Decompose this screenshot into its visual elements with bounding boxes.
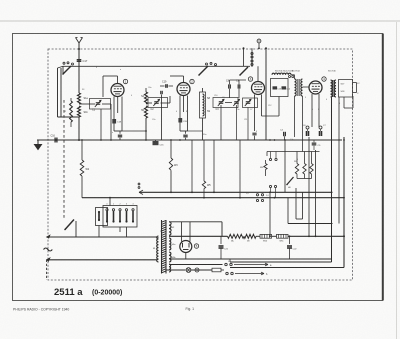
resistor W1 <box>153 141 159 145</box>
wire loop bottom2 <box>230 261 332 263</box>
wire speaker drop <box>338 97 340 224</box>
wire tube2 pins <box>179 96 181 119</box>
terminal pair gramophone <box>269 158 271 160</box>
wire C1 to bus <box>110 104 112 140</box>
wire output return vertical <box>331 97 333 262</box>
resistor chain W9 <box>244 234 256 238</box>
wire speaker return <box>343 97 345 108</box>
antenna <box>78 43 80 62</box>
mains wire upper <box>47 236 157 238</box>
capacitor C6a <box>183 134 187 136</box>
capacitor C8 <box>228 84 230 88</box>
variable capacitor C1 <box>79 103 95 105</box>
coil frame input <box>57 68 59 117</box>
dial lamp <box>257 39 261 43</box>
tube B4 <box>309 81 322 94</box>
choke W10 boxed <box>260 234 272 238</box>
coil S1a <box>78 93 81 104</box>
resistor W7c <box>310 164 313 175</box>
trimmer capacitor C3a <box>234 101 239 103</box>
band switch SK3 <box>240 67 248 75</box>
wire tap divider <box>269 192 271 236</box>
rail HT1 <box>139 191 333 193</box>
transformer core <box>161 220 163 274</box>
selector plug 3 <box>119 209 121 211</box>
wire coil to ground bus <box>78 117 80 140</box>
wire under osc block <box>278 97 280 117</box>
dashed stub bottom left <box>46 260 48 280</box>
wire antenna to coil <box>78 62 80 93</box>
capacitor stage2 stub <box>160 91 162 94</box>
outer border frame <box>13 34 383 301</box>
wire tube2 grid cap <box>183 76 185 83</box>
selector plug 2 <box>112 209 114 211</box>
ground bus wire <box>37 139 342 141</box>
coil S1b <box>78 106 81 117</box>
band switch SK1 <box>63 62 65 64</box>
electrolytic C7 <box>319 131 321 136</box>
tube B2 number <box>190 79 194 83</box>
resistor W2 <box>81 140 83 160</box>
wire loop C <box>287 198 289 224</box>
resistor W7b <box>303 164 306 175</box>
capacitor C2a <box>118 134 122 136</box>
wire loop A <box>284 140 286 192</box>
wire tube3 grid up <box>257 66 259 81</box>
capacitor C16 <box>54 138 56 143</box>
varcap under tube3 <box>243 98 258 108</box>
switch contact chain <box>251 48 253 67</box>
transformer primary S1 <box>157 236 159 262</box>
rail HT2 <box>82 197 344 199</box>
wire drops to rails <box>213 140 215 192</box>
wire AVC link2 <box>188 130 203 132</box>
wire tube1 pins <box>113 97 115 120</box>
capacitor C5 <box>312 142 317 144</box>
node antenna entry <box>78 48 80 50</box>
IF transformer S13 S14 <box>295 79 297 96</box>
oscillator coil S8 S9 <box>200 92 206 118</box>
wire drop mid <box>191 140 193 192</box>
resistor W3 <box>170 140 172 158</box>
scan artifact faint right rule <box>396 22 398 339</box>
node dashed crossings <box>243 47 245 49</box>
variable capacitor C3 <box>213 98 238 108</box>
wire tube1 grid cap <box>117 76 119 84</box>
variable capacitor C2 <box>146 102 152 104</box>
wire C1 box drop <box>100 109 102 140</box>
coil S2 secondary <box>70 101 73 122</box>
tube B2 <box>177 83 190 96</box>
capacitor C4 <box>283 132 285 136</box>
capacitor C21 <box>220 236 222 244</box>
tube B5 number <box>194 244 198 248</box>
coil S5 <box>145 106 148 118</box>
electrolytic C6 <box>306 131 308 136</box>
tube B3 <box>252 82 265 95</box>
selector plug 4 <box>125 209 127 211</box>
speaker box S17 S18 <box>339 80 353 98</box>
fuse <box>191 269 212 271</box>
resistor W6 <box>265 160 267 164</box>
pilot lamp <box>166 269 186 271</box>
wire tube3 pins <box>254 95 256 132</box>
capacitor C20 <box>178 118 182 123</box>
tube B4 number <box>322 77 326 81</box>
wire coil2 to bus <box>145 88 147 92</box>
wire switch bus <box>63 65 250 67</box>
wires selector to mains <box>98 226 100 238</box>
transformer secondary S3b <box>169 252 171 262</box>
output transformer S15 S16 <box>331 80 333 97</box>
wire loop bottom <box>230 267 344 269</box>
inner dashed boundary box <box>48 49 353 280</box>
coil S10 horizontal <box>272 73 291 75</box>
speaker terminals <box>353 82 357 84</box>
wire loop D <box>308 137 310 236</box>
capacitor under tube3 <box>252 132 256 134</box>
terminal pair aux <box>256 194 258 196</box>
tube B5 <box>180 241 192 253</box>
capacitor block C13 C14 <box>271 79 289 97</box>
capacitor C17 <box>77 59 82 61</box>
capacitor C9 <box>237 84 239 88</box>
wire cathode return <box>169 258 332 260</box>
wire field coil return <box>343 137 345 268</box>
wire anode loop <box>169 221 222 223</box>
tube B3 number <box>248 77 252 81</box>
selector plug 5 <box>132 209 134 211</box>
AC source <box>44 248 53 251</box>
connector bar under tube2 <box>180 130 188 132</box>
wire resistor bottoms <box>296 174 298 179</box>
volume control lever <box>287 177 294 185</box>
wire HT B+ line <box>169 235 228 237</box>
band switch SK2 <box>206 63 208 65</box>
arrow bottom return left <box>47 258 51 262</box>
mains wire lower <box>47 259 157 261</box>
terminal pair pickup <box>269 185 271 187</box>
resistor W5 <box>203 140 205 181</box>
wire HT vertical from lamp node <box>265 48 267 140</box>
wire AVC link1 <box>122 130 146 132</box>
wire loop E <box>315 150 317 236</box>
tube B1 number <box>123 79 127 83</box>
coil S4 <box>145 92 148 104</box>
selector left plugs <box>98 211 100 213</box>
paper grain <box>0 0 1 1</box>
mains switch <box>65 220 74 230</box>
selector plug 1 <box>106 209 108 211</box>
tube B1 <box>111 84 124 97</box>
heater terminals a <box>225 263 227 265</box>
mechanical link dashed <box>63 100 65 219</box>
wire IFT down legs <box>294 96 296 137</box>
wire tube5 cathode <box>185 252 187 259</box>
resistor chain W8 <box>228 234 245 238</box>
wire top link <box>267 151 320 153</box>
transformer secondary S3c <box>169 264 171 272</box>
wire trimmer drop <box>236 105 238 140</box>
choke W11 boxed <box>277 234 289 238</box>
capacitor C18 <box>112 119 116 124</box>
scan artifact faint top rule <box>0 20 400 22</box>
voltage selector panel <box>96 208 108 226</box>
connector bar under tube1 <box>114 130 122 132</box>
heater terminals b <box>226 272 228 274</box>
wire loop B <box>295 188 297 219</box>
wire heater a <box>169 264 223 266</box>
ground symbol <box>35 140 42 150</box>
wire caps top link <box>229 80 231 84</box>
resistor W7a <box>295 164 298 175</box>
wire varcap3 drop <box>247 108 249 141</box>
wire tube4 pins <box>311 94 313 127</box>
capacitor C19 <box>165 84 167 88</box>
transformer secondary S2 <box>169 222 171 236</box>
transformer secondary S3a <box>169 238 171 250</box>
capacitor C22 <box>289 236 291 244</box>
